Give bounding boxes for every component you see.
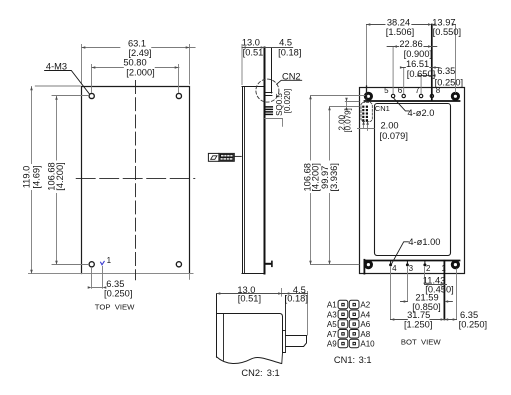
detail body top edge with rounded corner bbox=[217, 314, 283, 317]
dim line 31.75 / 6.35 bbox=[391, 319, 457, 321]
top case edge bar (thick) bbox=[365, 100, 460, 102]
side view body top edge bbox=[242, 86, 264, 88]
bottom-left edge stub bbox=[363, 260, 365, 274]
break wave line bbox=[217, 357, 282, 364]
standoff ear bottom-left bbox=[365, 262, 371, 268]
svg-text:[3.936]: [3.936] bbox=[329, 163, 339, 191]
svg-text:A5: A5 bbox=[327, 320, 337, 329]
dim line 11.43 bbox=[425, 284, 447, 286]
svg-text:[4.200]: [4.200] bbox=[310, 163, 320, 191]
svg-text:A2: A2 bbox=[360, 301, 370, 310]
CN2 connector body (detail) bbox=[286, 336, 307, 347]
horizontal centerline bbox=[76, 178, 195, 180]
svg-text:[1.250]: [1.250] bbox=[404, 320, 432, 330]
svg-text:CN2: CN2 bbox=[282, 71, 301, 81]
svg-text:[0.18]: [0.18] bbox=[278, 48, 301, 58]
svg-text:13.0: 13.0 bbox=[242, 37, 260, 47]
detail dim line 13.0/4.5 bbox=[217, 293, 308, 295]
dim 13.0/4.5 line bbox=[242, 47, 293, 49]
svg-text:CN1: CN1 bbox=[375, 104, 390, 113]
detail body left edge bbox=[216, 294, 218, 358]
dim 13.0/4.5 extension line left bbox=[241, 45, 243, 85]
svg-text:3:1: 3:1 bbox=[359, 355, 372, 365]
left dim vline 99.97 bbox=[329, 107, 331, 265]
svg-text:[0.079]: [0.079] bbox=[343, 108, 352, 132]
svg-text:[0.650]: [0.650] bbox=[407, 69, 435, 79]
pin 5 circle bbox=[391, 94, 394, 97]
svg-text:3: 3 bbox=[409, 264, 414, 273]
dim line 22.86 bbox=[387, 46, 437, 48]
dim 106.68 line bbox=[56, 96, 58, 265]
svg-text:2.00: 2.00 bbox=[381, 121, 399, 131]
svg-text:7: 7 bbox=[415, 86, 420, 95]
svg-text:[0.51]: [0.51] bbox=[243, 48, 266, 58]
svg-text:[4.200]: [4.200] bbox=[55, 162, 65, 190]
dim 63.1 extension lines bbox=[82, 45, 190, 85]
mounting hole top-right bbox=[176, 93, 181, 98]
CN1 socket cells column1 bbox=[338, 300, 359, 347]
svg-text:2: 2 bbox=[426, 264, 431, 273]
dim 6.35 (pin1 offset) lines bbox=[92, 267, 103, 289]
dim 119.0 line bbox=[31, 87, 33, 274]
pin 8 circle bbox=[430, 94, 433, 97]
side view body left outer edge bbox=[242, 87, 244, 274]
svg-text:4-M3: 4-M3 bbox=[46, 62, 67, 72]
svg-text:TOP VIEW: TOP VIEW bbox=[95, 303, 135, 312]
svg-text:BOT VIEW: BOT VIEW bbox=[401, 337, 441, 346]
detail connector step notch bbox=[283, 330, 286, 332]
CN1 connector dashed outline (bottom view) bbox=[361, 103, 372, 122]
svg-text:13.97: 13.97 bbox=[432, 17, 455, 27]
svg-text:63.1: 63.1 bbox=[128, 38, 146, 48]
mounting hole bottom-right bbox=[176, 262, 181, 267]
dim 63.1 line bbox=[82, 47, 196, 49]
svg-text:5: 5 bbox=[384, 86, 389, 95]
svg-text:4: 4 bbox=[392, 264, 397, 273]
mid ext tick bbox=[281, 289, 283, 297]
svg-text:119.0: 119.0 bbox=[21, 166, 31, 189]
ext lines top dims bbox=[366, 25, 368, 87]
module outer outline (bottom view) bbox=[360, 88, 465, 274]
svg-text:6: 6 bbox=[398, 86, 403, 95]
svg-text:8: 8 bbox=[436, 86, 441, 95]
svg-text:A8: A8 bbox=[360, 330, 370, 339]
dim 2.00 CN1 column leaders bbox=[358, 122, 375, 130]
svg-text:16.51: 16.51 bbox=[406, 59, 429, 69]
svg-text:A7: A7 bbox=[327, 330, 337, 339]
standoff ear bottom-right bbox=[452, 262, 458, 268]
standoff ear top-right bbox=[452, 93, 458, 99]
pin 1 thick stem bbox=[443, 261, 445, 320]
connector right ext line bbox=[307, 292, 309, 336]
pin 4 dot and stem bbox=[390, 261, 392, 264]
bottom edge (gray, extended) bbox=[29, 273, 194, 275]
mounting hole top-left bbox=[89, 93, 94, 98]
CN1 pin contacts bbox=[342, 303, 356, 344]
left dim vline 106.68 bbox=[310, 96, 312, 265]
svg-text:A4: A4 bbox=[360, 310, 370, 319]
svg-text:[4.69]: [4.69] bbox=[31, 165, 41, 188]
CN2 connector bottom lines bbox=[266, 93, 272, 96]
4-M3 label underline and leader bbox=[45, 71, 90, 95]
leader 4-phi1.00 bbox=[391, 242, 408, 265]
vertical centerline bbox=[135, 81, 137, 280]
svg-text:[2.000]: [2.000] bbox=[126, 68, 154, 78]
svg-text:6.35: 6.35 bbox=[437, 66, 455, 76]
CN1 socket cells column2 bbox=[349, 300, 359, 308]
svg-text:[0.51]: [0.51] bbox=[238, 293, 261, 303]
pin8 thick extension bbox=[431, 25, 433, 101]
svg-text:[0.250]: [0.250] bbox=[459, 320, 487, 330]
module body outline (top view) bbox=[82, 87, 190, 274]
svg-text:3:1: 3:1 bbox=[267, 368, 280, 378]
svg-text:[0.18]: [0.18] bbox=[285, 293, 308, 303]
dim line 16.51 bbox=[401, 67, 439, 69]
dim 50.80 line bbox=[92, 67, 179, 69]
side view right face (thick) bbox=[264, 48, 266, 274]
pin 1 marker (blue) bbox=[101, 261, 105, 264]
ext lines bottom dims bbox=[391, 267, 457, 319]
detail right face plate lines bbox=[282, 317, 284, 353]
svg-text:A1: A1 bbox=[327, 301, 337, 310]
svg-text:CN1:: CN1: bbox=[334, 355, 355, 365]
dim 50.80 extension lines bbox=[92, 65, 179, 93]
svg-text:A6: A6 bbox=[360, 320, 370, 329]
svg-text:A10: A10 bbox=[360, 340, 375, 349]
CN2 pin comb bars bbox=[266, 107, 273, 115]
datum feature frame bbox=[208, 153, 234, 161]
svg-text:[1.506]: [1.506] bbox=[386, 27, 414, 37]
right edge to wave bbox=[281, 353, 284, 364]
svg-text:[0.250]: [0.250] bbox=[104, 289, 132, 299]
pin 7 circle bbox=[419, 94, 422, 97]
mounting hole bottom-left bbox=[89, 262, 94, 267]
leader 4-phi2.0 bbox=[394, 98, 409, 111]
frame leader to side view bbox=[234, 155, 241, 157]
side view body bottom edge bbox=[242, 273, 265, 275]
CN2 connector right edge bbox=[271, 48, 273, 94]
dim line 21.59 bbox=[401, 301, 453, 303]
detail body inner left line bbox=[221, 314, 223, 361]
svg-text:1: 1 bbox=[107, 256, 112, 265]
detail circle around CN2 (dashed) bbox=[256, 79, 279, 102]
svg-text:22.86: 22.86 bbox=[399, 39, 422, 49]
CN1 pin squares (2x5) bbox=[362, 106, 368, 122]
svg-text:[0.900]: [0.900] bbox=[404, 49, 432, 59]
svg-text:A3: A3 bbox=[327, 310, 337, 319]
PCB inner outline (rounded) bbox=[375, 104, 451, 256]
frame value cell (dark) bbox=[220, 154, 234, 161]
svg-text:38.24: 38.24 bbox=[387, 17, 410, 27]
svg-text:CN2:: CN2: bbox=[241, 368, 262, 378]
pin 3 dot and stem bbox=[406, 261, 408, 264]
dim line 6.35 (pins 7-8) bbox=[421, 75, 432, 77]
svg-text:4-ø2.0: 4-ø2.0 bbox=[408, 108, 435, 118]
svg-text:A9: A9 bbox=[327, 340, 337, 349]
svg-text:50.80: 50.80 bbox=[123, 57, 146, 67]
dim 106.68 extension lines bbox=[52, 96, 89, 265]
svg-text:4-ø1.00: 4-ø1.00 bbox=[408, 237, 440, 247]
svg-text:1: 1 bbox=[441, 264, 446, 273]
svg-text:[0.020]: [0.020] bbox=[283, 89, 292, 113]
side view body left inner edge bbox=[244, 87, 246, 274]
SQ0.5 leader bbox=[265, 119, 283, 127]
pin 6 circle bbox=[402, 94, 405, 97]
svg-text:4.5: 4.5 bbox=[279, 37, 292, 47]
dim 119.0 extension lines bbox=[35, 85, 80, 87]
standoff ear top-left bbox=[365, 93, 371, 99]
bottom case edge bar (thick) bbox=[365, 260, 460, 262]
flatness symbol in frame bbox=[211, 156, 217, 160]
bottom standoff pin (side view) bbox=[266, 263, 272, 265]
CN2 label underline and leader bbox=[277, 80, 302, 84]
svg-text:[0.079]: [0.079] bbox=[380, 131, 408, 141]
dim line 38.24 / 13.97 bbox=[367, 24, 456, 26]
pin 2 dot and stem bbox=[424, 261, 426, 264]
left ext lines bbox=[311, 96, 365, 265]
2.00 row-pitch tick bbox=[346, 99, 348, 105]
svg-text:6.35: 6.35 bbox=[106, 279, 124, 289]
svg-text:[0.550]: [0.550] bbox=[433, 27, 461, 37]
